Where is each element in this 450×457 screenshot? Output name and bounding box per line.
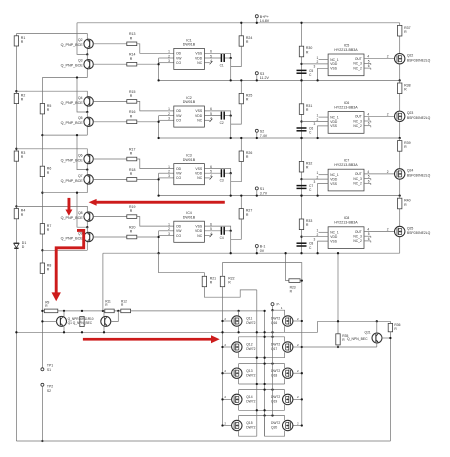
wire cap column to rail (230, 173, 232, 195)
wire Q11 drain stub (238, 311, 240, 316)
svg-text:6: 6 (368, 237, 370, 241)
svg-text:NC_1: NC_1 (330, 173, 339, 177)
junction (41, 134, 43, 136)
capacitor C6 (297, 127, 307, 129)
svg-text:Q21: Q21 (365, 330, 371, 334)
svg-text:B+P+: B+P+ (260, 15, 269, 19)
svg-text:VW: VW (176, 229, 182, 233)
wire B-1 rail (103, 252, 400, 254)
wire cap column to rail (230, 58, 232, 80)
resistor R39 (398, 141, 402, 152)
wire block bottom row / grid source row (16, 331, 317, 333)
transistor Q4 (86, 94, 88, 96)
wire cell1 rail drop (77, 23, 87, 55)
svg-text:CO: CO (176, 61, 181, 65)
svg-text:VSS: VSS (330, 124, 337, 128)
junction (15, 90, 17, 92)
junction (399, 79, 401, 81)
svg-text:Q18: Q18 (271, 373, 277, 377)
svg-text:Q11: Q11 (246, 317, 252, 321)
svg-text:OD: OD (176, 109, 182, 113)
svg-text:IC7: IC7 (344, 159, 350, 163)
op-amp IC2 DW01B (174, 106, 205, 127)
resistor R2 (14, 93, 18, 103)
diode D1 (14, 243, 20, 248)
red arrow right-pointing bottom (83, 335, 220, 343)
svg-text:0V: 0V (260, 249, 265, 253)
svg-text:3: 3 (168, 59, 170, 63)
wire S1 rail (159, 195, 400, 197)
transistor Q20 DW72 (293, 425, 302, 427)
resistor R3 (14, 151, 18, 161)
svg-text:CO: CO (176, 234, 181, 238)
transistor Q17 DW72 (293, 346, 302, 348)
svg-text:TP1: TP1 (47, 363, 53, 367)
pin NC stub IC1 (204, 62, 209, 64)
op-amp IC5 HY2213-BB3A (328, 54, 364, 76)
svg-text:Q22: Q22 (407, 54, 414, 58)
capacitor C7 (297, 185, 307, 187)
svg-text:C1: C1 (220, 63, 224, 67)
node B-1 (255, 245, 258, 248)
resistor R26 (240, 138, 242, 151)
resistor R8 (40, 263, 44, 273)
resistor R27 (240, 196, 242, 209)
resistor R14 (93, 63, 127, 65)
svg-text:DW72: DW72 (246, 400, 255, 404)
wire grid drain row 4 (239, 415, 285, 417)
wire bottom rail (16, 440, 390, 442)
svg-text:Q_PNP_BCE: Q_PNP_BCE (61, 179, 84, 183)
wire R36 down to bottom rail (389, 332, 391, 441)
junction (399, 194, 401, 196)
wire collector row y=320.2 (318, 320, 391, 322)
svg-text:2: 2 (387, 170, 389, 174)
pin NC stub IC4 (204, 235, 209, 237)
svg-text:4: 4 (367, 55, 369, 59)
svg-text:Q6: Q6 (78, 153, 83, 157)
svg-text:OD: OD (176, 52, 182, 56)
wire IC6 OUT to gate (364, 115, 395, 117)
wire P- to Q16 drain (273, 310, 285, 316)
svg-text:IC8: IC8 (344, 216, 350, 220)
svg-text:NC_1: NC_1 (330, 58, 339, 62)
svg-text:BSF030NE2LQ: BSF030NE2LQ (407, 116, 431, 120)
transistor Q18 DW72 (293, 372, 302, 374)
svg-text:1: 1 (168, 222, 170, 226)
transistor Q11 DW72 (223, 320, 232, 322)
svg-text:Q_PNP_BCE: Q_PNP_BCE (61, 236, 84, 240)
junction (15, 205, 17, 207)
wire right chain x=301.5 cell2 (301, 80, 303, 138)
pin 1 stub IC5 (319, 59, 329, 61)
svg-text:2: 2 (317, 118, 319, 122)
svg-text:Q_PNP_BCE: Q_PNP_BCE (61, 121, 84, 125)
svg-text:VSS: VSS (195, 224, 203, 228)
svg-text:Q_PNP_BCE: Q_PNP_BCE (61, 64, 84, 68)
wire grid drain row 1 (239, 336, 285, 338)
wire B-1 to R23 (286, 253, 289, 280)
svg-text:S2: S2 (260, 129, 264, 133)
wire R25 bottom to cap column (231, 104, 242, 124)
svg-text:3: 3 (168, 174, 170, 178)
pin 1 stub IC8 (319, 231, 329, 233)
resistor R19 (93, 216, 127, 218)
svg-text:OUT: OUT (355, 115, 362, 119)
svg-text:VW: VW (176, 172, 182, 176)
wire cell4 rail drop (77, 193, 87, 228)
pin 2 wire IC8 (302, 236, 329, 238)
wire R17 to IC3 pin1 (137, 159, 174, 169)
svg-text:7.4V: 7.4V (260, 134, 268, 138)
junction (230, 114, 232, 116)
svg-text:Q_PNP_BCE: Q_PNP_BCE (61, 216, 84, 220)
resistor R40 (398, 198, 402, 209)
svg-text:VDD: VDD (195, 229, 203, 233)
junction (41, 192, 43, 194)
junction (86, 226, 88, 228)
junction (240, 79, 242, 81)
svg-text:2: 2 (317, 60, 319, 64)
red arrow left-pointing (89, 199, 225, 206)
transistor Q25 BSF030NE2LQ (395, 226, 405, 236)
junction (300, 178, 302, 180)
resistor R11 (105, 309, 114, 313)
wire S2 rail (159, 137, 400, 139)
svg-text:2: 2 (168, 227, 170, 231)
junction (240, 22, 242, 24)
svg-text:NC_3: NC_3 (353, 62, 362, 66)
resistor R32 (299, 161, 303, 172)
wire grid bottom row right (265, 416, 285, 437)
svg-text:CO: CO (176, 119, 181, 123)
transistor Q16 DW72 (293, 320, 302, 322)
svg-text:DW01B: DW01B (183, 158, 196, 162)
wire B-1 drop right (337, 253, 339, 334)
resistor R17 (93, 158, 127, 160)
node B+P+ (255, 15, 258, 18)
svg-text:1: 1 (317, 229, 319, 233)
wire IC2 VSS to cap column (204, 111, 230, 116)
svg-text:Q9: Q9 (78, 231, 83, 235)
svg-text:DW72: DW72 (246, 373, 255, 377)
transistor Q2 (86, 37, 88, 39)
svg-text:HY2213-BB3A: HY2213-BB3A (334, 105, 358, 109)
pin 2 wire IC5 (302, 63, 329, 65)
resistor R37 (398, 25, 402, 36)
resistor R5 (40, 104, 44, 114)
wire grid source row 4 (239, 409, 285, 411)
svg-text:VDD: VDD (195, 56, 203, 60)
wire grid drain row 2 (239, 363, 285, 365)
svg-text:NC_2: NC_2 (353, 239, 362, 243)
op-amp IC4 DW01B (174, 221, 205, 242)
wire grid vertical VB (264, 311, 266, 436)
wire grid vertical VC (272, 310, 274, 415)
wire IC8 OUT to gate (364, 231, 395, 233)
svg-text:Q1 Q_NPN_BEC: Q1 Q_NPN_BEC (68, 321, 93, 325)
transistor Q8 (86, 210, 88, 212)
svg-text:Q19: Q19 (271, 400, 277, 404)
resistor R18 (93, 178, 127, 180)
svg-text:VDD: VDD (330, 177, 338, 181)
transistor Q22 BSF030NE2LQ (395, 54, 405, 64)
wire cell2 rail drop (77, 78, 87, 113)
junctions resistor row (63, 310, 65, 312)
pin stubs NC_3 NC_2 IC6 (364, 120, 371, 122)
node P- (271, 303, 274, 306)
svg-text:3.7V: 3.7V (260, 191, 268, 195)
wire R20 to vertical (137, 236, 159, 238)
wire right chain x=301.5 cell1 (301, 23, 303, 81)
resistor R24 (240, 23, 242, 36)
svg-text:NC_2: NC_2 (353, 66, 362, 70)
wire cell1 top row (16, 34, 87, 37)
svg-text:NC: NC (197, 119, 202, 123)
svg-text:Q8: Q8 (78, 211, 83, 215)
op-amp IC7 HY2213-BB3A (328, 169, 364, 191)
wire IC4 VSS to cap column (204, 226, 230, 231)
transistor Q6 (86, 152, 88, 154)
svg-text:OUT: OUT (355, 57, 362, 61)
svg-text:3: 3 (314, 122, 316, 126)
svg-text:VDD: VDD (195, 114, 203, 118)
resistor R16 (93, 121, 127, 123)
svg-text:VSS: VSS (330, 182, 337, 186)
svg-text:Q4: Q4 (78, 96, 83, 100)
resistor R13 (93, 43, 127, 45)
svg-text:4: 4 (367, 170, 369, 174)
wire R26 bottom to cap column (231, 161, 242, 181)
wire right chain x=301.5 cell4 (301, 196, 303, 254)
op-amp IC1 DW01B (174, 48, 205, 69)
svg-text:Q_PNP_BCE: Q_PNP_BCE (61, 158, 84, 162)
node S3 (255, 72, 258, 75)
svg-text:VW: VW (176, 56, 182, 60)
svg-text:C3: C3 (220, 179, 224, 183)
transistor Q3 (86, 54, 88, 59)
svg-text:5: 5 (368, 175, 370, 179)
svg-text:OD: OD (176, 167, 182, 171)
svg-text:VSS: VSS (195, 109, 203, 113)
wire cell2 emitter row (42, 134, 87, 136)
wire right mosfet chain cell3 (399, 138, 401, 196)
resistor R15 (93, 100, 127, 102)
svg-text:2: 2 (168, 112, 170, 116)
red arrow down at Q8 (65, 198, 72, 216)
junction (230, 230, 232, 232)
svg-text:1: 1 (168, 107, 170, 111)
svg-text:Q17: Q17 (271, 347, 277, 351)
svg-text:Q5: Q5 (78, 116, 83, 120)
capacitor C1 (204, 57, 221, 59)
svg-text:D1: D1 (22, 241, 27, 245)
svg-text:3: 3 (314, 180, 316, 184)
svg-text:Q14: Q14 (246, 395, 252, 399)
wire R23 to right gate bus (300, 281, 302, 426)
capacitor C8 (297, 242, 307, 244)
svg-text:2: 2 (317, 233, 319, 237)
wire cell4 emitter row (42, 249, 87, 251)
wire IC1 VSS to cap column (204, 53, 230, 58)
pin 2 wire IC6 (302, 121, 329, 123)
svg-text:Q25: Q25 (407, 226, 414, 230)
junction bottom rail (41, 440, 43, 442)
node TP2 S2 (41, 383, 44, 386)
wire R21 jog to grid (204, 287, 256, 298)
junction (41, 249, 43, 251)
wire right chain x=301.5 cell3 (301, 138, 303, 196)
wire gate row extension to Q21 emitter (302, 346, 377, 348)
svg-text:Q7: Q7 (78, 174, 83, 178)
resistor R7 (40, 224, 44, 234)
wire grid source row 3 (239, 383, 285, 385)
wire mid-left chain x=42.4 (41, 78, 43, 368)
svg-text:HY2213-BB3A: HY2213-BB3A (334, 163, 358, 167)
svg-text:VDD: VDD (330, 62, 338, 66)
svg-text:6: 6 (368, 179, 370, 183)
svg-text:C2: C2 (220, 121, 224, 125)
svg-text:DW01B: DW01B (183, 215, 196, 219)
wire R14 to vertical (137, 63, 159, 65)
wire IC3 pin2/pin3 vertical to rail (158, 173, 160, 195)
junction (230, 57, 232, 59)
svg-text:Q2: Q2 (78, 38, 83, 42)
wire S3 rail (159, 79, 400, 81)
wire grid drain row 3 (239, 389, 285, 391)
resistor R30 (299, 46, 303, 57)
pin 3 wire IC6 (318, 126, 329, 138)
svg-text:3: 3 (168, 117, 170, 121)
svg-text:DW72: DW72 (271, 421, 280, 425)
svg-text:VSS: VSS (330, 67, 337, 71)
svg-text:VDD: VDD (330, 235, 338, 239)
transistor Q12 DW72 (223, 346, 232, 348)
svg-text:2: 2 (168, 170, 170, 174)
wire cell4 top row (16, 206, 87, 209)
svg-text:Q_PNP_BCE: Q_PNP_BCE (61, 43, 84, 47)
transistor Q13 DW72 (223, 372, 232, 374)
wire cell2 top row (16, 91, 87, 94)
wire IC1 pin2/pin3 vertical to rail (158, 58, 160, 80)
svg-text:4: 4 (367, 228, 369, 232)
resistor R10 (80, 317, 84, 327)
svg-text:CO: CO (176, 176, 181, 180)
wire cap column to rail (230, 116, 232, 138)
svg-text:S1: S1 (47, 368, 51, 372)
wire R18 to vertical (137, 178, 159, 180)
transistor Q9 (86, 227, 88, 232)
node TP1 S1 (41, 368, 44, 371)
svg-text:Q16: Q16 (271, 321, 277, 325)
svg-text:3: 3 (168, 232, 170, 236)
resistor R12 (121, 309, 131, 313)
svg-text:S3: S3 (260, 72, 264, 76)
junction (86, 168, 88, 170)
wire IC7 OUT to gate (364, 173, 395, 175)
junctions source row 1 (237, 331, 239, 333)
wire R35 bottom (337, 345, 339, 347)
wire R22 gate bus (222, 287, 224, 426)
svg-text:BSF030NE2LQ: BSF030NE2LQ (407, 58, 431, 62)
svg-text:NC: NC (197, 234, 202, 238)
svg-text:Q12: Q12 (246, 343, 252, 347)
svg-text:5: 5 (368, 59, 370, 63)
junction (300, 236, 302, 238)
wire cell3 rail drop (77, 135, 87, 170)
svg-text:Q20: Q20 (271, 426, 277, 430)
svg-text:OUT: OUT (355, 230, 362, 234)
resistor R31 (299, 104, 303, 115)
transistor Q5 (86, 112, 88, 117)
svg-text:NC_3: NC_3 (353, 177, 362, 181)
capacitor C4 (204, 230, 221, 232)
svg-text:1: 1 (317, 113, 319, 117)
svg-text:1: 1 (317, 171, 319, 175)
junction (240, 137, 242, 139)
resistor R4 (14, 209, 18, 219)
svg-text:OD: OD (176, 224, 182, 228)
wire IC4 vertical continues to R21 (159, 253, 205, 276)
wire R22 top link (223, 263, 302, 281)
pin 1 stub IC7 (319, 174, 329, 176)
capacitor C2 (204, 115, 221, 117)
svg-text:Q23: Q23 (407, 111, 414, 115)
svg-text:5: 5 (368, 117, 370, 121)
wire resistor row y=310.9 (42, 310, 264, 312)
resistor R25 (240, 80, 242, 93)
wire cell1 emitter row (42, 77, 87, 79)
svg-text:HY2213-BB3A: HY2213-BB3A (334, 221, 358, 225)
capacitor C5 (297, 69, 307, 71)
junction (300, 63, 302, 65)
svg-text:DW01B: DW01B (183, 43, 196, 47)
svg-text:VDD: VDD (195, 172, 203, 176)
svg-text:IC6: IC6 (344, 101, 350, 105)
wire R24 bottom to cap column (231, 46, 242, 66)
wire R19 to IC4 pin1 (137, 217, 174, 227)
svg-text:1: 1 (317, 56, 319, 60)
wire right mosfet chain cell2 (399, 80, 401, 138)
transistor Q14 DW72 (223, 398, 232, 400)
svg-text:C4: C4 (220, 236, 224, 240)
svg-text:HY2213-BB3A: HY2213-BB3A (334, 48, 358, 52)
svg-text:NC_2: NC_2 (353, 124, 362, 128)
svg-text:Q13: Q13 (246, 369, 252, 373)
wire cell3 top row (16, 149, 87, 152)
wire R16 to vertical (137, 121, 159, 123)
red arrow L-shaped at Q9 (52, 230, 84, 301)
wire cell3 emitter row (42, 192, 87, 194)
svg-text:NC: NC (197, 61, 202, 65)
wire grid vertical VA (256, 290, 258, 436)
resistor R35 (336, 334, 340, 345)
wire IC5 OUT to gate (364, 58, 395, 60)
svg-text:VW: VW (176, 114, 182, 118)
svg-text:Q3: Q3 (78, 59, 83, 63)
svg-text:6: 6 (368, 122, 370, 126)
resistor R38 (398, 83, 402, 94)
transistor Q15 DW72 (223, 425, 232, 427)
svg-text:NC_1: NC_1 (330, 115, 339, 119)
svg-text:S1: S1 (260, 187, 264, 191)
pin 2 wire IC7 (302, 178, 329, 180)
pin 3 wire IC7 (318, 184, 329, 196)
wire B+ rail (77, 22, 400, 24)
junction (86, 53, 88, 55)
pin stubs NC_3 NC_2 IC8 (364, 235, 371, 237)
junction (300, 120, 302, 122)
